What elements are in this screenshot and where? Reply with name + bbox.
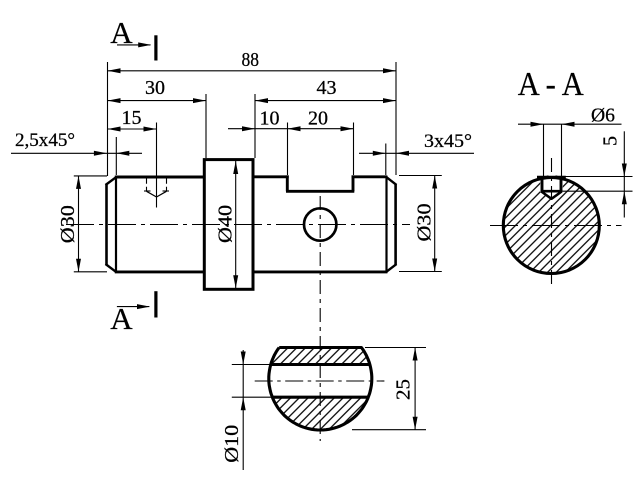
extension line keyway left <box>287 123 289 176</box>
svg-text:25: 25 <box>393 379 415 400</box>
shaft bottom edge left section <box>115 270 206 273</box>
ext line depth top <box>562 176 633 178</box>
dim 15 left arrow <box>108 127 121 132</box>
svg-text:20: 20 <box>308 108 328 130</box>
svg-text:A: A <box>110 15 133 50</box>
dim 10 left arrow <box>242 126 255 131</box>
dim line D30 right <box>434 176 436 272</box>
section hole floor <box>541 190 562 193</box>
cut arrow line top <box>117 44 151 46</box>
svg-text:30: 30 <box>145 77 165 99</box>
extension line flange right <box>254 94 256 158</box>
chamfer ext line x116 <box>115 137 117 175</box>
section hole left wall <box>541 176 544 191</box>
ext line D30R top <box>399 175 442 177</box>
ext line D30L bottom <box>74 271 107 273</box>
section circle <box>503 178 599 274</box>
shaft left chamfer bottom slant <box>106 264 117 272</box>
svg-text:15: 15 <box>122 107 142 129</box>
dim 5 bottom arrow <box>622 191 627 204</box>
keyway left wall <box>286 175 289 191</box>
dim line 88 <box>108 70 397 72</box>
extension line keyway right <box>353 123 355 176</box>
shaft top edge flange-to-keyway <box>252 175 289 178</box>
svg-text:3x45°: 3x45° <box>424 131 472 152</box>
dim 25 bottom arrow <box>413 417 418 430</box>
dim 30 left arrow <box>108 98 121 103</box>
section hole right wall <box>560 176 563 191</box>
dim line D40 <box>235 161 237 288</box>
svg-text:43: 43 <box>317 77 337 99</box>
dim line D6 <box>518 123 622 125</box>
dim 25 top arrow <box>413 348 418 361</box>
dim D30R top arrow <box>432 176 437 189</box>
extension line left x108 <box>107 62 109 176</box>
svg-text:A - A: A - A <box>518 66 584 103</box>
cut line top <box>154 35 157 60</box>
dim 10 right arrow <box>288 126 301 131</box>
leader line 3x45 <box>359 152 474 154</box>
svg-text:Ø40: Ø40 <box>215 205 237 243</box>
svg-text:Ø30: Ø30 <box>414 204 436 242</box>
keyway floor <box>286 190 354 193</box>
dim line 5 <box>623 131 625 217</box>
bottom hole lower edge <box>272 396 368 399</box>
ext line D30R bottom <box>399 271 442 273</box>
chamfer3 left arrow <box>373 151 386 156</box>
chamfer ext line x386 <box>385 144 387 176</box>
svg-text:5: 5 <box>600 136 622 146</box>
svg-text:2,5x45°: 2,5x45° <box>15 130 75 151</box>
dim line 15 <box>108 128 157 130</box>
bottom horizontal centerline <box>255 380 385 382</box>
ext line depth bottom <box>562 190 633 192</box>
ext line 25 top <box>365 347 426 349</box>
dim 15 right arrow <box>144 127 157 132</box>
section hatch <box>503 176 599 274</box>
dim D10 top arrow <box>241 352 246 365</box>
extension line right x396 <box>395 62 397 175</box>
ext line D6 left <box>543 124 545 177</box>
dim 88 right arrow <box>383 68 396 73</box>
svg-text:Ø10: Ø10 <box>221 425 243 463</box>
cut line bottom <box>154 291 157 317</box>
shaft right chamfer edge line <box>385 176 387 273</box>
dim 43 right arrow <box>383 98 396 103</box>
bottom view outline <box>269 348 372 431</box>
chamfer right arrow <box>116 151 129 156</box>
keyway right wall <box>352 175 355 191</box>
shaft left chamfer edge line <box>115 176 117 273</box>
dim D40 bottom arrow <box>233 275 238 288</box>
dim D30L top arrow <box>76 176 81 189</box>
dim 5 top arrow <box>622 164 627 177</box>
cut arrow bottom <box>137 304 150 309</box>
hidden hole floor left dash <box>144 190 151 192</box>
svg-text:A: A <box>110 301 133 336</box>
dim 20 right arrow <box>341 126 354 131</box>
ext line D10 bottom <box>232 396 275 398</box>
cut arrow line bottom <box>117 306 149 308</box>
shaft top edge keyway-to-chamfer <box>352 175 388 178</box>
ext line D30L top <box>74 175 107 177</box>
dim line 43 <box>255 100 396 102</box>
hidden hole left wall <box>146 178 148 191</box>
dim line D30 left <box>78 176 80 272</box>
cross hole circle <box>304 208 336 240</box>
leader line 2,5x45 <box>11 152 142 154</box>
section hole cone left <box>541 192 551 199</box>
flange outline <box>204 160 253 290</box>
dim D6 right arrow <box>562 122 575 127</box>
dim 88 left arrow <box>108 68 121 73</box>
shaft right chamfer top slant <box>386 177 397 185</box>
hidden hole cone right <box>157 191 167 197</box>
cut arrow top <box>138 42 151 47</box>
cross hole vertical centerline <box>319 196 321 441</box>
svg-text:Ø6: Ø6 <box>591 105 615 127</box>
dim D30R bottom arrow <box>432 259 437 272</box>
dim D30L bottom arrow <box>76 259 81 272</box>
dim D6 left arrow <box>531 122 544 127</box>
bottom view hatch lower <box>272 397 368 430</box>
ext line D6 right <box>561 124 563 177</box>
main horizontal centerline <box>66 224 410 226</box>
shaft left chamfer top slant <box>106 177 117 185</box>
dim D40 top arrow <box>233 161 238 174</box>
section hole top line <box>537 176 566 179</box>
shaft right end face <box>394 184 397 264</box>
section vertical centerline <box>551 158 553 289</box>
shaft left end face <box>105 184 108 264</box>
hidden hole right wall <box>166 178 168 191</box>
dim D10 bottom arrow <box>241 397 246 410</box>
section hole cone right <box>552 192 562 199</box>
bottom hole upper edge <box>271 363 370 366</box>
chamfer3 right arrow <box>396 151 409 156</box>
dim 30 right arrow <box>193 98 206 103</box>
ext line 25 bottom <box>352 429 426 431</box>
shaft top edge left section <box>115 176 206 179</box>
extension line flange left <box>205 94 207 158</box>
hole axis line <box>156 123 158 208</box>
section horizontal centerline <box>490 225 622 227</box>
dim line 10-20 <box>228 128 354 130</box>
svg-text:Ø30: Ø30 <box>57 205 79 243</box>
dim 43 left arrow <box>255 98 268 103</box>
dim line 25 <box>414 348 416 430</box>
hidden hole cone left <box>147 191 157 197</box>
chamfer left arrow <box>94 151 107 156</box>
hidden hole floor right dash <box>163 190 170 192</box>
bottom view hatch upper <box>271 348 370 365</box>
dim line D10 <box>242 350 244 470</box>
dim line 30 <box>108 100 207 102</box>
svg-text:88: 88 <box>242 49 260 71</box>
ext line D10 top <box>232 364 273 366</box>
shaft right chamfer bottom slant <box>386 264 397 272</box>
svg-text:10: 10 <box>260 108 280 130</box>
shaft bottom edge right section <box>252 270 388 273</box>
